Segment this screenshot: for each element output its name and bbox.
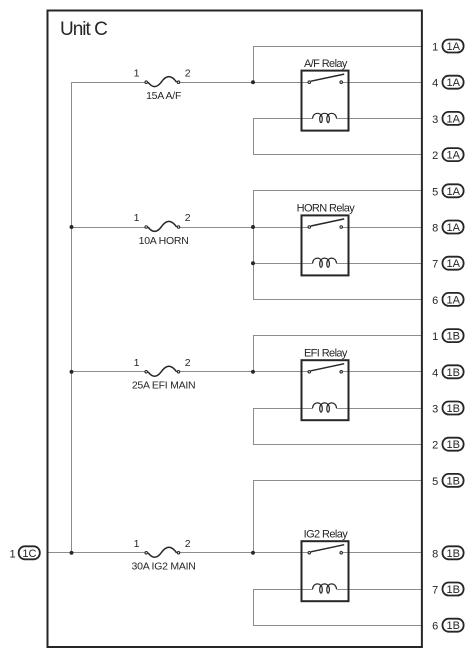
svg-text:25A EFI MAIN: 25A EFI MAIN — [132, 380, 196, 392]
svg-text:30A IG2 MAIN: 30A IG2 MAIN — [132, 561, 196, 573]
svg-text:1: 1 — [432, 331, 438, 343]
svg-text:1A: 1A — [446, 77, 460, 89]
svg-text:EFI Relay: EFI Relay — [304, 348, 348, 360]
svg-text:2: 2 — [185, 538, 191, 550]
svg-text:7: 7 — [432, 259, 438, 271]
svg-text:1B: 1B — [446, 403, 459, 415]
svg-text:1B: 1B — [446, 475, 459, 487]
svg-text:8: 8 — [432, 223, 438, 235]
svg-text:15A A/F: 15A A/F — [146, 90, 181, 102]
svg-text:1B: 1B — [446, 367, 459, 379]
svg-text:10A HORN: 10A HORN — [139, 235, 189, 247]
svg-text:2: 2 — [185, 212, 191, 224]
svg-text:4: 4 — [432, 367, 438, 379]
svg-text:1: 1 — [432, 42, 438, 54]
svg-text:A/F Relay: A/F Relay — [304, 58, 348, 70]
svg-text:HORN Relay: HORN Relay — [297, 203, 356, 215]
svg-text:3: 3 — [432, 404, 438, 416]
svg-text:1: 1 — [134, 67, 140, 79]
svg-text:1A: 1A — [446, 294, 460, 306]
svg-text:1: 1 — [134, 538, 140, 550]
svg-text:1A: 1A — [446, 186, 460, 198]
svg-text:6: 6 — [432, 621, 438, 633]
svg-text:7: 7 — [432, 585, 438, 597]
svg-text:8: 8 — [432, 548, 438, 560]
svg-text:IG2 Relay: IG2 Relay — [304, 529, 349, 541]
svg-text:1C: 1C — [22, 548, 36, 560]
svg-text:1: 1 — [134, 357, 140, 369]
svg-text:2: 2 — [432, 440, 438, 452]
svg-text:1A: 1A — [446, 113, 460, 125]
svg-text:3: 3 — [432, 114, 438, 126]
svg-text:1: 1 — [134, 212, 140, 224]
svg-text:1B: 1B — [446, 584, 459, 596]
svg-text:4: 4 — [432, 78, 438, 90]
svg-text:1B: 1B — [446, 548, 459, 560]
svg-text:1: 1 — [9, 548, 15, 560]
svg-text:1A: 1A — [446, 258, 460, 270]
svg-text:1A: 1A — [446, 41, 460, 53]
svg-text:1B: 1B — [446, 620, 459, 632]
svg-text:1A: 1A — [446, 222, 460, 234]
svg-text:2: 2 — [432, 150, 438, 162]
svg-text:2: 2 — [185, 357, 191, 369]
svg-text:1A: 1A — [446, 150, 460, 162]
svg-text:1B: 1B — [446, 331, 459, 343]
svg-text:5: 5 — [432, 476, 438, 488]
svg-text:6: 6 — [432, 295, 438, 307]
svg-text:Unit C: Unit C — [60, 19, 107, 40]
svg-text:1B: 1B — [446, 439, 459, 451]
svg-text:2: 2 — [185, 67, 191, 79]
svg-text:5: 5 — [432, 186, 438, 198]
